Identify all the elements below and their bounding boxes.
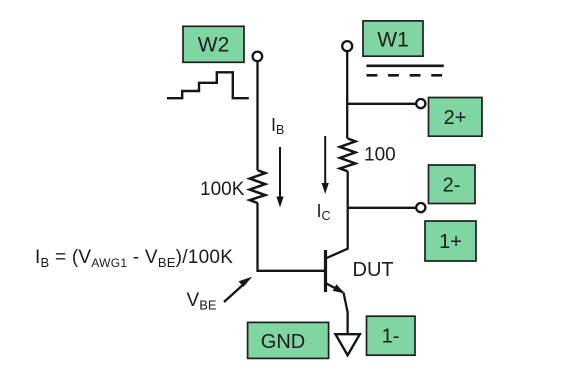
2- label box <box>429 165 476 204</box>
current arrow IB <box>276 147 283 208</box>
transistor Q1 base bar <box>324 250 327 292</box>
W1 label box <box>363 21 423 56</box>
emitter wire down to ground <box>344 293 348 335</box>
1- label box <box>367 316 416 355</box>
resistor R1 100K <box>250 170 266 203</box>
2+ terminal circle <box>416 99 425 108</box>
1+ label box <box>425 221 476 261</box>
svg-text:IB: IB <box>271 115 284 137</box>
current arrow IC <box>322 136 329 194</box>
svg-text:W2: W2 <box>198 34 230 57</box>
ground symbol <box>336 334 360 355</box>
wire to 2+ terminal <box>347 103 416 105</box>
resistor R2 100 <box>340 139 356 172</box>
svg-text:VBE: VBE <box>187 290 217 313</box>
svg-text:100: 100 <box>364 145 396 166</box>
1+/2- terminal circle <box>416 203 425 212</box>
transistor Q1 emitter lead with arrow <box>326 283 345 293</box>
svg-text:GND: GND <box>261 331 305 353</box>
dashed trace line under W1 <box>367 74 446 77</box>
svg-text:DUT: DUT <box>353 259 394 281</box>
W2 terminal circle <box>253 52 263 62</box>
W1 terminal circle <box>342 41 352 51</box>
VBE pointer arrow <box>224 277 252 302</box>
svg-text:IB = (VAWG1 - VBE)/100K: IB = (VAWG1 - VBE)/100K <box>35 247 233 270</box>
staircase waveform <box>167 72 249 98</box>
2+ label box <box>429 98 483 137</box>
transistor Q1 collector lead <box>326 249 348 259</box>
wire W1 terminal down to resistor 100 <box>346 51 348 138</box>
svg-text:2-: 2- <box>443 175 461 197</box>
svg-text:IC: IC <box>317 201 331 223</box>
W2 label box <box>183 26 244 62</box>
wire W2 terminal down to 100K resistor <box>256 62 258 171</box>
GND label box <box>248 322 329 358</box>
wire to 1+/2- terminal <box>348 207 417 209</box>
solid trace line under W1 <box>367 64 444 67</box>
svg-text:2+: 2+ <box>444 107 467 129</box>
svg-text:1-: 1- <box>382 326 400 348</box>
wire resistor 100 down to collector <box>347 171 349 249</box>
svg-text:1+: 1+ <box>439 231 462 253</box>
svg-text:100K: 100K <box>200 179 245 200</box>
svg-text:W1: W1 <box>377 29 409 52</box>
wire 100K down then right to transistor base <box>258 203 326 271</box>
